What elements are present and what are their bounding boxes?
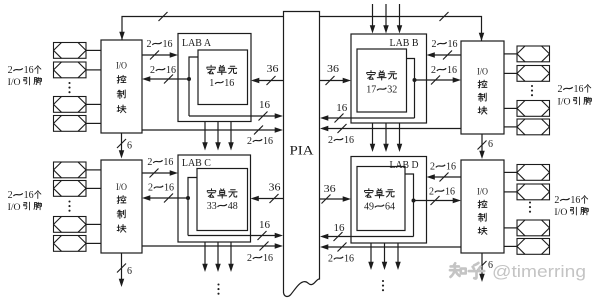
wire LAB A->I/O 2~16 bbox=[149, 78, 189, 80]
svg-text:16: 16 bbox=[446, 162, 456, 173]
svg-text:16: 16 bbox=[259, 100, 270, 111]
svg-text:16: 16 bbox=[263, 253, 273, 264]
wire right I/O->PIA 2~16 bbox=[327, 128, 461, 130]
svg-text:I/O: I/O bbox=[8, 203, 21, 213]
junction dot LAB C feedback bbox=[186, 196, 190, 200]
svg-text:33: 33 bbox=[207, 201, 217, 212]
pin wire bbox=[86, 169, 101, 171]
svg-text:LAB D: LAB D bbox=[390, 160, 419, 171]
svg-text:2: 2 bbox=[430, 162, 435, 173]
arrow into right I/O block top bbox=[479, 33, 485, 41]
I/O pin symbol right-bottom 3 bbox=[517, 220, 550, 236]
wire LAB C->I/O 2~16 bbox=[149, 197, 188, 199]
svg-text:16: 16 bbox=[164, 183, 174, 194]
LAB C text 宏 bbox=[207, 189, 215, 198]
svg-text:16: 16 bbox=[24, 190, 34, 201]
I/O control block right-top text 控 bbox=[478, 80, 487, 88]
svg-text:2: 2 bbox=[147, 157, 152, 168]
svg-text:16: 16 bbox=[163, 157, 173, 168]
svg-text:LAB C: LAB C bbox=[182, 158, 211, 169]
wire LAB C output 3 down bbox=[230, 242, 232, 266]
svg-text:16: 16 bbox=[570, 195, 580, 206]
PIA programmable interconnect array bar bbox=[284, 12, 320, 297]
wire I/O->LAB B 2~16 bbox=[434, 54, 462, 56]
svg-text:2: 2 bbox=[8, 65, 13, 76]
svg-text:I/O: I/O bbox=[116, 62, 127, 72]
wire 6 bottom-right I/O down bbox=[481, 253, 483, 276]
svg-text:16: 16 bbox=[448, 39, 458, 50]
pin wire bbox=[86, 223, 101, 225]
svg-text:2: 2 bbox=[328, 254, 333, 265]
I/O control block left-top text 块 bbox=[117, 105, 126, 113]
wire LAB A output 2 down bbox=[217, 122, 219, 145]
svg-text:2: 2 bbox=[148, 183, 153, 194]
I/O control block right-bottom text 制 bbox=[478, 213, 486, 222]
wire I/O->LAB D 2~16 bbox=[434, 176, 462, 178]
I/O pin symbol left-bottom 3 bbox=[54, 217, 87, 233]
pin wire bbox=[504, 227, 517, 229]
wire PIA->LAB B 36 bbox=[320, 80, 344, 82]
pin wire bbox=[504, 53, 517, 55]
LAB D text 宏 bbox=[365, 189, 373, 198]
watermark 知乎 @timerring bbox=[450, 263, 466, 277]
I/O control block left-top bbox=[101, 40, 142, 133]
pin wire bbox=[86, 242, 101, 244]
wire 6 right I/O->bottom I/O bbox=[481, 134, 483, 153]
wire LAB B output 1 down bbox=[372, 123, 374, 146]
svg-text:2: 2 bbox=[429, 187, 434, 198]
svg-text:16: 16 bbox=[24, 65, 34, 76]
LAB B macrocell front box bbox=[357, 49, 407, 112]
ellipsis below LAB D arrows bbox=[382, 280, 384, 291]
svg-text:PIA: PIA bbox=[290, 143, 315, 158]
bus slash top-left line bbox=[159, 12, 168, 21]
I/O pin symbol right-top 3 bbox=[517, 101, 550, 117]
LAB D macrocell front box bbox=[357, 167, 405, 231]
svg-text:36: 36 bbox=[267, 64, 279, 75]
svg-text:I/O: I/O bbox=[477, 67, 488, 77]
I/O control block left-bottom text 块 bbox=[117, 225, 126, 233]
svg-text:16: 16 bbox=[263, 136, 273, 147]
ellipsis left-bottom pins bbox=[68, 200, 70, 211]
svg-text:I/O: I/O bbox=[8, 78, 21, 88]
wire left I/O->PIA 2~16 bottom bbox=[142, 245, 276, 247]
LAB A macrocell front box bbox=[198, 50, 248, 105]
pin wire bbox=[86, 187, 101, 189]
wire LAB D output 1 down bbox=[370, 243, 372, 264]
svg-text:2: 2 bbox=[328, 135, 333, 146]
I/O control block left-top text 制 bbox=[117, 90, 125, 99]
wire LAB A->PIA 16 bbox=[189, 115, 276, 117]
svg-text:32: 32 bbox=[387, 85, 397, 96]
I/O pin symbol left-bottom 4 bbox=[54, 236, 87, 252]
I/O control block right-top bbox=[461, 41, 504, 134]
I/O pin symbol right-top 2 bbox=[517, 66, 550, 82]
wire PIA->LAB C 36 bbox=[258, 198, 284, 200]
LAB D outer box bbox=[351, 157, 427, 244]
ellipsis right-top pins bbox=[531, 85, 533, 96]
wire: top global line left segment bbox=[122, 17, 283, 41]
I/O pin symbol left-bottom 2 bbox=[54, 181, 87, 197]
svg-text:16: 16 bbox=[163, 39, 173, 50]
wire: top input 2 into LAB B bbox=[385, 4, 387, 27]
junction dot LAB D feedback bbox=[412, 199, 416, 203]
I/O control block right-top text 块 bbox=[478, 106, 487, 114]
svg-text:64: 64 bbox=[385, 202, 395, 213]
wire LAB C output 2 down bbox=[217, 242, 219, 266]
LAB D macrocell stack back box bbox=[405, 174, 414, 237]
svg-text:16: 16 bbox=[334, 223, 345, 234]
pin wire bbox=[504, 245, 517, 247]
svg-text:@timerring: @timerring bbox=[492, 263, 586, 281]
svg-text:2: 2 bbox=[8, 190, 13, 201]
I/O pin symbol right-bottom 2 bbox=[517, 184, 550, 200]
svg-text:2: 2 bbox=[147, 39, 152, 50]
LAB B macrocell stack back box bbox=[407, 59, 415, 119]
wire: top global line right segment bbox=[320, 17, 482, 42]
svg-text:16: 16 bbox=[224, 78, 234, 89]
arrow into left I/O block top bbox=[119, 32, 125, 40]
svg-text:16: 16 bbox=[336, 103, 347, 114]
LAB B text 宏 bbox=[367, 71, 375, 80]
wire PIA->LAB D 36 bbox=[320, 198, 344, 200]
pin wire bbox=[86, 103, 101, 105]
wire: top input 3 into LAB B bbox=[399, 4, 401, 27]
svg-text:2: 2 bbox=[150, 65, 155, 76]
svg-text:17: 17 bbox=[366, 85, 376, 96]
LAB C macrocell stack back box bbox=[188, 178, 197, 236]
svg-text:I/O: I/O bbox=[477, 187, 488, 197]
svg-text:LAB A: LAB A bbox=[182, 38, 212, 49]
svg-text:6: 6 bbox=[127, 266, 132, 277]
LAB C macrocell front box bbox=[197, 169, 248, 231]
I/O pin symbol right-bottom 1 bbox=[517, 165, 550, 181]
LAB C outer box bbox=[178, 155, 251, 242]
wire LAB D output 2 down bbox=[384, 243, 386, 264]
pin wire bbox=[504, 107, 517, 109]
svg-text:16: 16 bbox=[259, 220, 270, 231]
svg-text:I/O: I/O bbox=[116, 183, 127, 193]
I/O pin symbol right-top 4 bbox=[517, 119, 550, 135]
wire LAB B->PIA 16 bbox=[327, 117, 415, 119]
svg-text:16: 16 bbox=[166, 65, 176, 76]
bus slash top-right line bbox=[440, 12, 449, 21]
I/O pin symbol right-bottom 4 bbox=[517, 239, 550, 255]
svg-text:2: 2 bbox=[432, 39, 437, 50]
I/O pin symbol left-top 2 bbox=[54, 62, 87, 78]
I/O control block right-bottom text 控 bbox=[478, 200, 487, 208]
I/O control block left-bottom bbox=[101, 160, 142, 253]
pin wire bbox=[86, 69, 101, 71]
I/O control block left-bottom text 制 bbox=[117, 210, 125, 219]
pin wire bbox=[86, 122, 101, 124]
wire I/O->LAB C 2~16 bbox=[142, 172, 171, 174]
LAB A outer box bbox=[178, 34, 251, 122]
wire PIA->LAB A 36 bbox=[258, 80, 283, 82]
I/O control block right-bottom text 块 bbox=[478, 227, 487, 235]
LAB A macrocell stack back box bbox=[189, 57, 198, 116]
ellipsis below LAB C arrows bbox=[217, 283, 219, 294]
wire 6 bottom-left I/O down bbox=[121, 253, 123, 281]
svg-text:2: 2 bbox=[247, 253, 252, 264]
pin wire bbox=[504, 72, 517, 74]
I/O pin symbol left-top 3 bbox=[54, 97, 87, 113]
wire I/O->LAB A 2~16 bbox=[142, 54, 171, 56]
wire LAB C output 1 down bbox=[204, 242, 206, 266]
svg-text:2: 2 bbox=[431, 65, 436, 76]
svg-text:16: 16 bbox=[447, 65, 457, 76]
wire: top input 1 into LAB B bbox=[372, 4, 374, 27]
svg-text:16: 16 bbox=[445, 187, 455, 198]
I/O pin symbol left-bottom 1 bbox=[54, 162, 87, 178]
svg-text:36: 36 bbox=[269, 183, 281, 194]
wire LAB D->PIA 16 bbox=[327, 236, 414, 238]
svg-text:49: 49 bbox=[364, 202, 374, 213]
junction dot LAB A feedback bbox=[187, 77, 191, 81]
svg-text:36: 36 bbox=[324, 184, 336, 195]
LAB A text 宏 bbox=[207, 65, 215, 74]
wire left I/O->PIA 2~16 bbox=[142, 129, 276, 131]
I/O control block left-bottom text 控 bbox=[117, 196, 126, 204]
svg-text:I/O: I/O bbox=[554, 208, 567, 218]
wire LAB D output 3 down bbox=[397, 243, 399, 264]
I/O control block right-bottom bbox=[461, 160, 504, 253]
wire LAB B output 2 down bbox=[385, 123, 387, 146]
LAB B outer box bbox=[351, 34, 427, 123]
svg-text:2: 2 bbox=[554, 195, 559, 206]
wire LAB A output 3 down bbox=[230, 122, 232, 145]
svg-text:36: 36 bbox=[327, 64, 339, 75]
I/O control block right-top text 制 bbox=[478, 93, 486, 102]
svg-text:16: 16 bbox=[344, 254, 354, 265]
wire 6 left I/O->bottom I/O bbox=[121, 133, 123, 152]
svg-text:2: 2 bbox=[247, 136, 252, 147]
pin wire bbox=[504, 126, 517, 128]
I/O pin symbol left-top 4 bbox=[54, 116, 87, 132]
ellipsis left-top pins bbox=[68, 82, 70, 93]
wire LAB B->I/O 2~16 bbox=[415, 79, 455, 81]
svg-text:LAB B: LAB B bbox=[390, 38, 419, 49]
junction dot LAB B feedback bbox=[413, 78, 417, 82]
I/O pin symbol left-top 1 bbox=[54, 43, 87, 59]
pin wire bbox=[86, 49, 101, 51]
I/O control block left-top text 控 bbox=[117, 75, 126, 83]
svg-text:2: 2 bbox=[558, 84, 563, 95]
wire right I/O->PIA 2~16 bottom bbox=[327, 246, 461, 248]
svg-text:6: 6 bbox=[488, 139, 493, 150]
svg-text:I/O: I/O bbox=[558, 98, 571, 108]
svg-text:1: 1 bbox=[209, 78, 214, 89]
wire LAB A output 1 down bbox=[204, 122, 206, 145]
I/O pin symbol right-top 1 bbox=[517, 46, 550, 62]
svg-text:16: 16 bbox=[344, 135, 354, 146]
wire LAB C->PIA 16 bbox=[188, 235, 276, 237]
wire LAB B output 3 down bbox=[399, 123, 401, 146]
wire LAB D->I/O 2~16 bbox=[414, 200, 455, 202]
ellipsis right-bottom pins bbox=[529, 201, 531, 212]
svg-text:48: 48 bbox=[228, 201, 238, 212]
pin wire bbox=[504, 191, 517, 193]
pin wire bbox=[504, 171, 517, 173]
svg-text:6: 6 bbox=[127, 141, 132, 152]
svg-text:16: 16 bbox=[574, 84, 584, 95]
